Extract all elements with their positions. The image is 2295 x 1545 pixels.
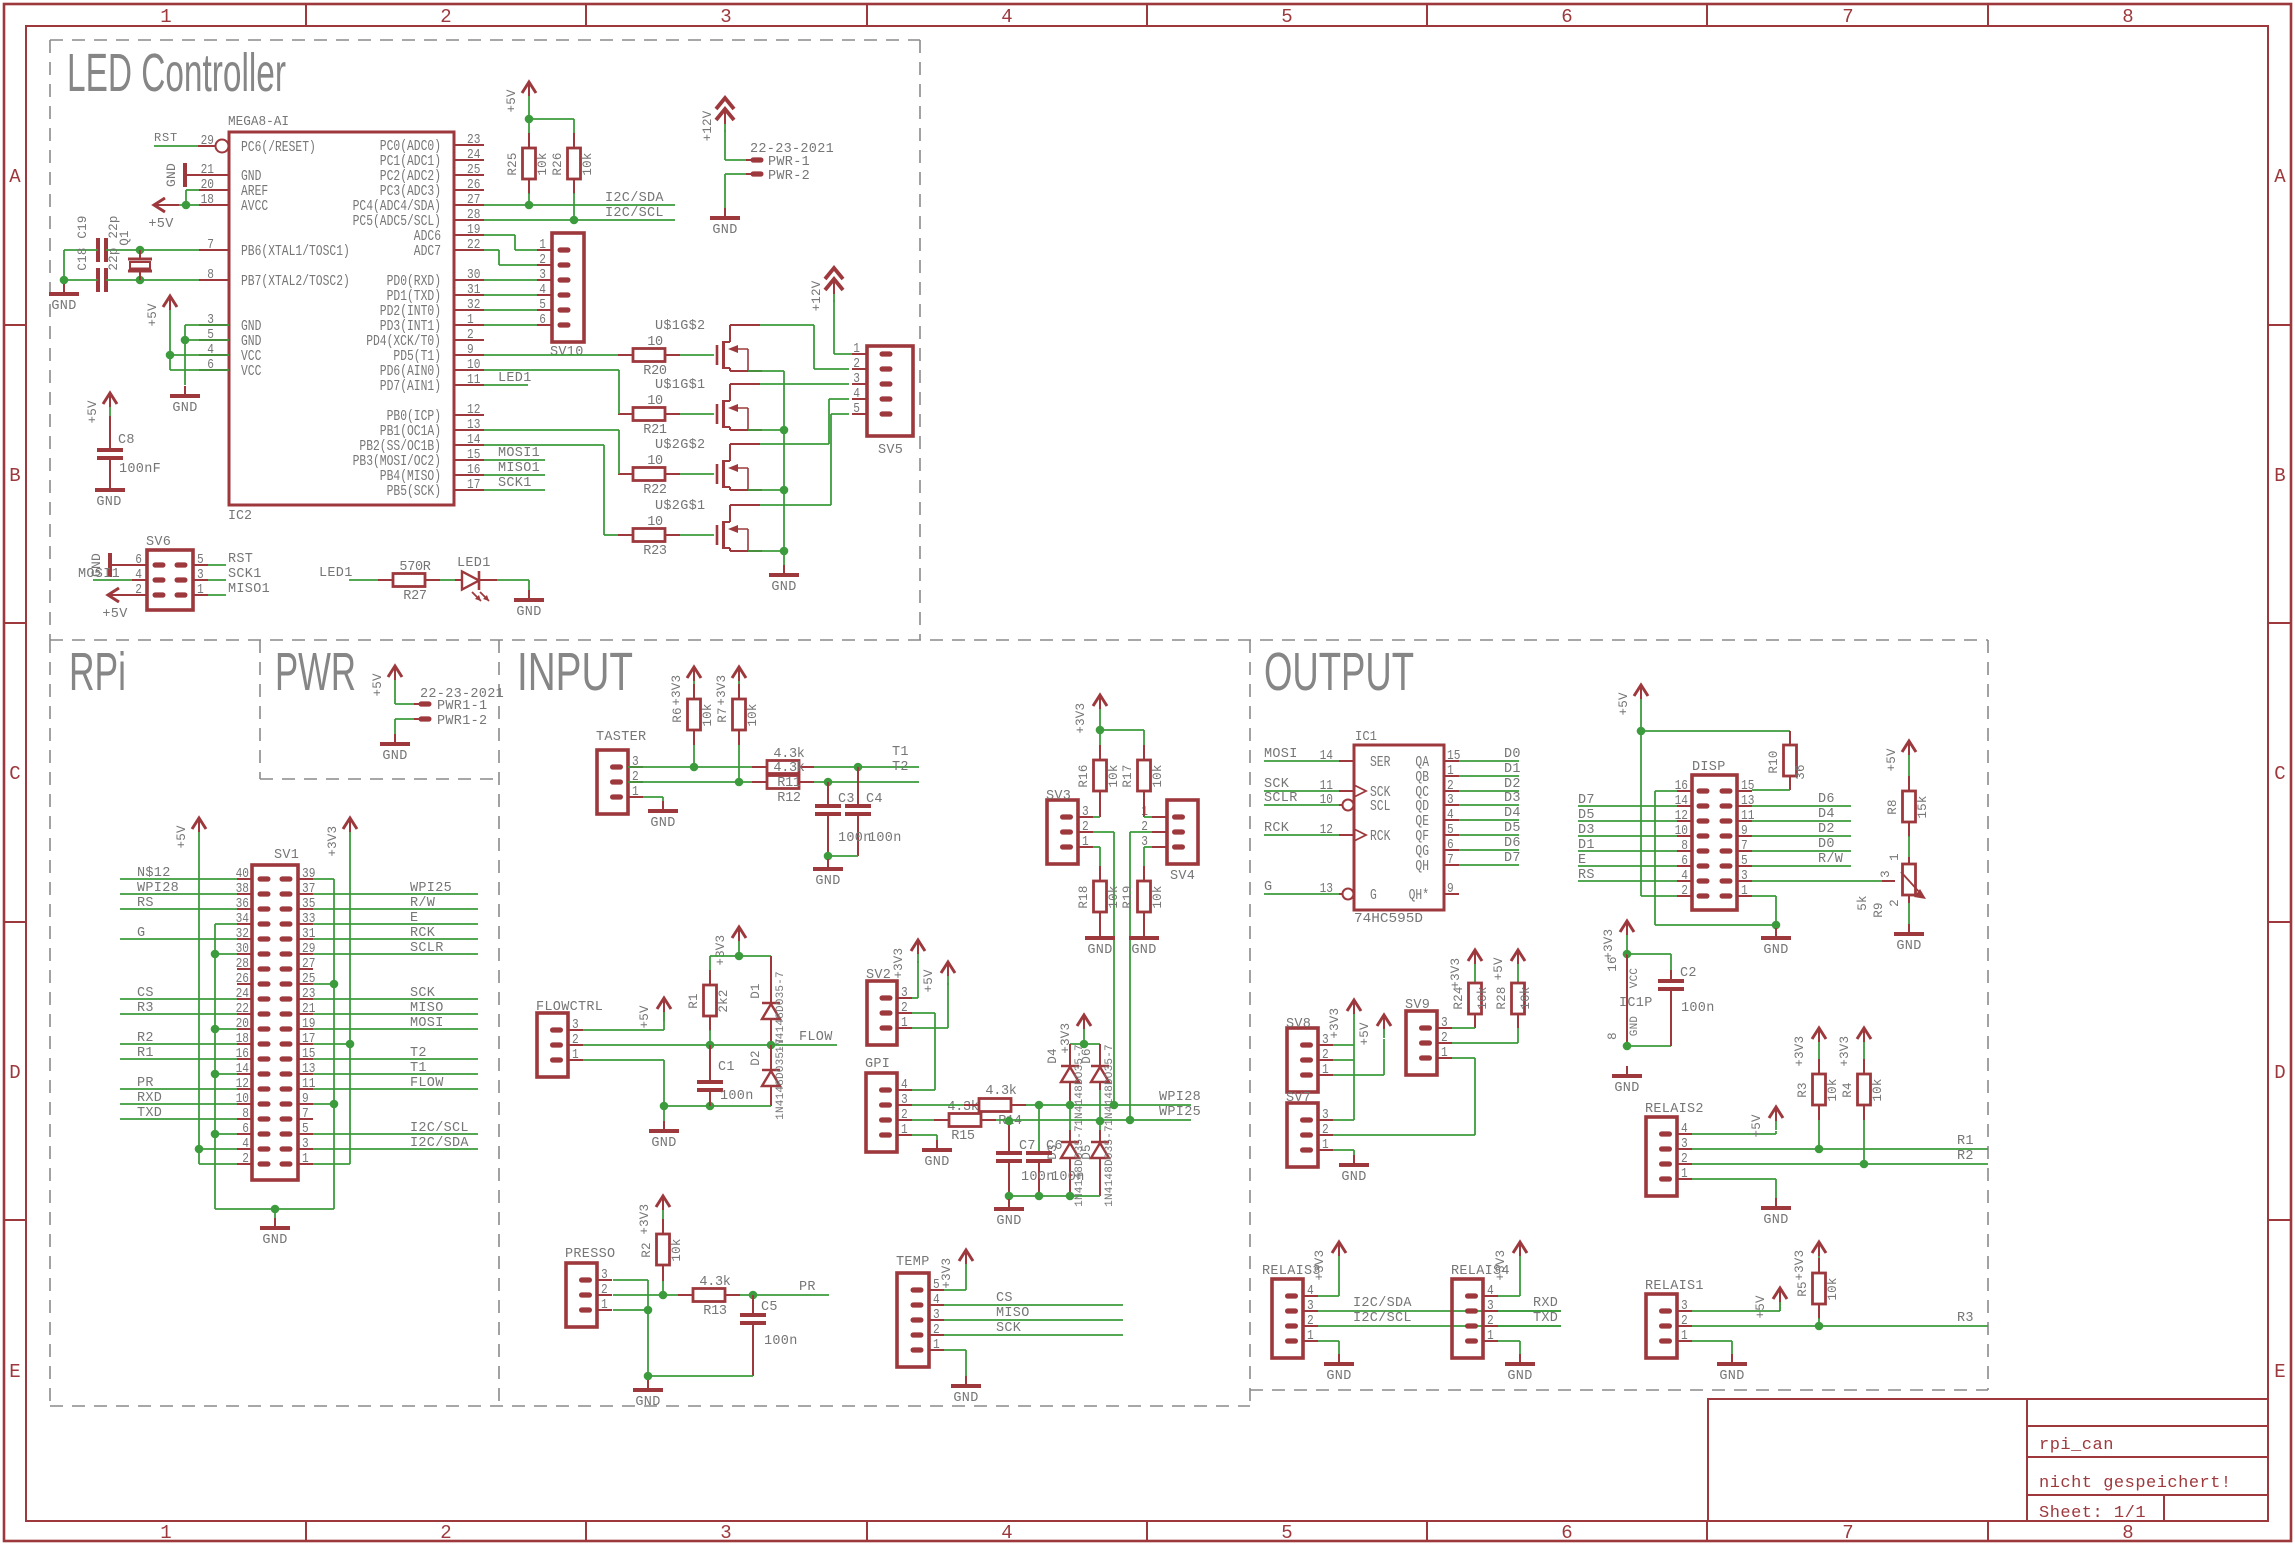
svg-text:SCLR: SCLR: [1264, 791, 1298, 806]
svg-text:11: 11: [467, 372, 480, 388]
svg-text:GND: GND: [516, 605, 541, 620]
svg-text:1: 1: [467, 312, 474, 328]
svg-text:32: 32: [467, 297, 480, 313]
svg-text:RELAIS1: RELAIS1: [1645, 1279, 1704, 1294]
svg-text:8: 8: [2122, 1522, 2133, 1544]
svg-text:1: 1: [572, 1047, 579, 1063]
svg-text:22: 22: [467, 237, 480, 253]
svg-text:MISO: MISO: [996, 1306, 1030, 1321]
svg-text:20: 20: [201, 177, 214, 193]
svg-text:2: 2: [1681, 883, 1688, 899]
svg-text:7: 7: [207, 237, 214, 253]
svg-text:2: 2: [467, 327, 474, 343]
svg-text:IC1: IC1: [1355, 729, 1377, 745]
svg-text:100nF: 100nF: [119, 462, 161, 477]
svg-text:GND: GND: [262, 1233, 287, 1248]
svg-text:GND: GND: [164, 163, 179, 187]
svg-text:27: 27: [467, 192, 480, 208]
svg-text:ADC7: ADC7: [414, 243, 441, 260]
svg-text:3: 3: [572, 1017, 579, 1033]
svg-text:4: 4: [1447, 807, 1454, 823]
svg-text:PB7(XTAL2/TOSC2): PB7(XTAL2/TOSC2): [241, 273, 350, 290]
svg-text:U$1G$1: U$1G$1: [655, 378, 705, 393]
svg-text:I2C/SDA: I2C/SDA: [605, 191, 664, 206]
svg-text:+5V: +5V: [505, 89, 519, 112]
svg-text:31: 31: [467, 282, 480, 298]
svg-text:D4: D4: [1818, 807, 1835, 822]
svg-text:1: 1: [901, 1015, 908, 1031]
svg-text:4: 4: [1307, 1283, 1314, 1299]
svg-text:10: 10: [647, 454, 663, 469]
svg-text:D5: D5: [1504, 821, 1521, 836]
svg-text:1: 1: [1447, 763, 1454, 779]
svg-text:8: 8: [1681, 838, 1688, 854]
svg-text:4: 4: [1681, 1121, 1688, 1137]
svg-text:D2: D2: [1818, 822, 1835, 837]
svg-text:D7: D7: [1504, 851, 1521, 866]
svg-text:3: 3: [302, 1136, 309, 1152]
svg-text:1N4148DO35-7: 1N4148DO35-7: [1104, 1125, 1116, 1207]
svg-text:7: 7: [1842, 6, 1853, 28]
svg-text:GND: GND: [1763, 943, 1788, 958]
svg-text:8: 8: [242, 1106, 249, 1122]
svg-text:GND: GND: [1629, 1016, 1641, 1037]
svg-text:R2: R2: [1957, 1149, 1974, 1164]
svg-text:R6: R6: [671, 707, 685, 722]
svg-text:4: 4: [135, 567, 142, 583]
svg-text:C8: C8: [118, 433, 135, 448]
svg-text:2: 2: [1487, 1313, 1494, 1329]
svg-text:GND: GND: [953, 1391, 978, 1406]
svg-text:10: 10: [467, 357, 480, 373]
svg-text:9: 9: [1447, 881, 1454, 897]
svg-text:1: 1: [1741, 883, 1748, 899]
svg-text:3: 3: [720, 1522, 731, 1544]
svg-text:TXD: TXD: [137, 1106, 162, 1121]
svg-text:36: 36: [236, 896, 249, 912]
svg-text:R16: R16: [1077, 764, 1091, 787]
svg-text:1: 1: [160, 1522, 171, 1544]
svg-text:D1: D1: [1578, 838, 1595, 853]
svg-text:1: 1: [632, 784, 639, 800]
svg-text:10k: 10k: [581, 152, 595, 175]
svg-text:GND: GND: [651, 1136, 676, 1151]
svg-text:1: 1: [933, 1337, 940, 1353]
svg-text:32: 32: [236, 926, 249, 942]
svg-text:RXD: RXD: [1533, 1296, 1558, 1311]
svg-text:PRESSO: PRESSO: [565, 1247, 615, 1262]
svg-text:22-23-2021: 22-23-2021: [750, 142, 834, 157]
svg-text:2: 2: [1322, 1122, 1329, 1138]
svg-text:GND: GND: [1131, 943, 1156, 958]
svg-text:+12V: +12V: [701, 110, 715, 141]
svg-text:PWR-1: PWR-1: [768, 155, 810, 170]
svg-text:+5V: +5V: [102, 607, 128, 622]
svg-text:CS: CS: [137, 986, 154, 1001]
svg-text:1: 1: [1322, 1137, 1329, 1153]
svg-text:30: 30: [467, 267, 480, 283]
svg-text:7: 7: [1741, 838, 1748, 854]
svg-text:C: C: [2274, 763, 2285, 785]
svg-text:3: 3: [1447, 792, 1454, 808]
svg-text:30: 30: [236, 941, 249, 957]
svg-text:2: 2: [572, 1032, 579, 1048]
svg-text:RCK: RCK: [1370, 828, 1390, 845]
svg-text:PB5(SCK): PB5(SCK): [387, 483, 441, 500]
svg-text:C4: C4: [866, 792, 883, 807]
svg-text:MOSI: MOSI: [1264, 747, 1298, 762]
svg-text:rpi_can: rpi_can: [2039, 1436, 2114, 1455]
svg-text:R19: R19: [1121, 885, 1135, 908]
svg-text:GND: GND: [712, 223, 737, 238]
svg-text:9: 9: [467, 342, 474, 358]
svg-text:WPI28: WPI28: [137, 881, 179, 896]
svg-text:SV3: SV3: [1046, 789, 1071, 804]
svg-text:1: 1: [601, 1297, 608, 1313]
svg-text:5: 5: [853, 401, 860, 417]
svg-text:5: 5: [1281, 6, 1292, 28]
svg-text:+5V: +5V: [371, 673, 385, 696]
svg-text:+3V3: +3V3: [326, 826, 340, 857]
svg-text:3: 3: [933, 1307, 940, 1323]
svg-text:SCK1: SCK1: [228, 567, 262, 582]
svg-text:I2C/SDA: I2C/SDA: [1353, 1296, 1412, 1311]
svg-text:FLOW: FLOW: [410, 1076, 444, 1091]
svg-text:3: 3: [601, 1267, 608, 1283]
svg-text:GND: GND: [635, 1395, 660, 1410]
svg-text:RXD: RXD: [137, 1091, 162, 1106]
svg-text:6: 6: [1447, 837, 1454, 853]
svg-text:+3V3: +3V3: [1313, 1250, 1327, 1281]
svg-text:5: 5: [1741, 853, 1748, 869]
svg-text:R15: R15: [951, 1129, 975, 1144]
svg-text:RST: RST: [228, 552, 253, 567]
svg-text:GND: GND: [1087, 943, 1112, 958]
svg-text:10k: 10k: [1871, 1078, 1885, 1101]
svg-text:SV10: SV10: [550, 345, 584, 360]
svg-text:INPUT: INPUT: [517, 642, 633, 702]
svg-text:R21: R21: [643, 423, 667, 438]
svg-text:R3: R3: [1957, 1311, 1974, 1326]
svg-text:40: 40: [236, 866, 249, 882]
svg-text:U$2G$2: U$2G$2: [655, 438, 705, 453]
svg-text:C7: C7: [1019, 1139, 1036, 1154]
svg-text:PWR: PWR: [275, 642, 356, 702]
svg-text:4.3k: 4.3k: [773, 747, 804, 762]
svg-text:7: 7: [1447, 852, 1454, 868]
svg-text:G: G: [1264, 880, 1272, 895]
svg-text:10k: 10k: [1826, 1078, 1840, 1101]
svg-text:C3: C3: [838, 792, 855, 807]
svg-text:C19: C19: [76, 215, 90, 238]
svg-text:SCK1: SCK1: [498, 476, 532, 491]
svg-text:5: 5: [197, 552, 204, 568]
svg-text:+3V3: +3V3: [892, 948, 906, 979]
svg-text:22-23-2021: 22-23-2021: [420, 687, 504, 702]
svg-text:G: G: [1370, 887, 1377, 904]
svg-text:WPI28: WPI28: [1159, 1090, 1201, 1105]
svg-text:5: 5: [539, 297, 546, 313]
svg-text:I2C/SDA: I2C/SDA: [410, 1136, 469, 1151]
svg-text:Q1: Q1: [118, 230, 132, 245]
svg-text:2: 2: [901, 1000, 908, 1016]
svg-text:18: 18: [236, 1031, 249, 1047]
svg-text:GND: GND: [771, 580, 796, 595]
svg-text:24: 24: [467, 147, 480, 163]
svg-text:RST: RST: [154, 131, 178, 145]
svg-text:+5V: +5V: [175, 825, 189, 848]
svg-text:D: D: [2274, 1062, 2285, 1084]
svg-text:+3V3: +3V3: [715, 675, 729, 706]
svg-text:C18: C18: [76, 247, 90, 270]
svg-text:+5V: +5V: [146, 303, 160, 326]
svg-text:B: B: [2274, 465, 2285, 487]
svg-text:18: 18: [201, 192, 214, 208]
svg-text:3: 3: [539, 267, 546, 283]
svg-text:MOSI1: MOSI1: [498, 446, 540, 461]
svg-text:PR: PR: [799, 1280, 816, 1295]
svg-text:R2: R2: [640, 1242, 654, 1257]
svg-text:SV9: SV9: [1405, 998, 1430, 1013]
svg-text:GND: GND: [1763, 1213, 1788, 1228]
svg-text:4.3k: 4.3k: [699, 1275, 730, 1290]
svg-text:3: 3: [1441, 1015, 1448, 1031]
svg-text:25: 25: [467, 162, 480, 178]
svg-text:16: 16: [236, 1046, 249, 1062]
svg-text:4: 4: [933, 1292, 940, 1308]
svg-text:+5V: +5V: [1492, 957, 1506, 980]
svg-text:1: 1: [302, 1151, 309, 1167]
svg-text:100n: 100n: [1051, 1170, 1085, 1185]
svg-text:1: 1: [197, 582, 204, 598]
svg-text:2: 2: [1681, 1313, 1688, 1329]
svg-text:GND: GND: [172, 401, 197, 416]
svg-text:100n: 100n: [868, 831, 902, 846]
svg-text:3: 3: [901, 985, 908, 1001]
svg-text:+3V3: +3V3: [1602, 929, 1616, 960]
svg-text:D0: D0: [1818, 837, 1835, 852]
svg-text:4: 4: [1681, 868, 1688, 884]
svg-text:14: 14: [236, 1061, 249, 1077]
svg-text:R3: R3: [1796, 1082, 1810, 1097]
svg-text:6: 6: [135, 552, 142, 568]
svg-text:100n: 100n: [838, 831, 872, 846]
svg-text:100n: 100n: [720, 1089, 754, 1104]
svg-text:100n: 100n: [1681, 1001, 1715, 1016]
svg-text:CS: CS: [996, 1291, 1013, 1306]
svg-text:VCC: VCC: [241, 363, 261, 380]
svg-text:2: 2: [853, 356, 860, 372]
svg-text:PWR-2: PWR-2: [768, 169, 810, 184]
svg-text:C6: C6: [1046, 1139, 1063, 1154]
svg-text:R2: R2: [137, 1031, 154, 1046]
svg-text:+5V: +5V: [922, 969, 936, 992]
svg-text:C1: C1: [718, 1060, 735, 1075]
svg-text:D4: D4: [1046, 1048, 1060, 1063]
svg-text:LED Controller: LED Controller: [67, 43, 286, 103]
svg-text:E: E: [1578, 853, 1586, 868]
svg-text:I2C/SCL: I2C/SCL: [1353, 1311, 1412, 1326]
svg-text:GND: GND: [815, 874, 840, 889]
svg-text:10k: 10k: [536, 152, 550, 175]
svg-text:RCK: RCK: [1264, 821, 1290, 836]
svg-text:GND: GND: [650, 816, 675, 831]
svg-text:C2: C2: [1680, 966, 1697, 981]
svg-text:+3V3: +3V3: [1838, 1036, 1852, 1067]
svg-text:R18: R18: [1077, 885, 1091, 908]
svg-text:GND: GND: [1507, 1369, 1532, 1384]
svg-text:3: 3: [1681, 1136, 1688, 1152]
svg-text:74HC595D: 74HC595D: [1354, 911, 1423, 927]
svg-text:OUTPUT: OUTPUT: [1264, 642, 1414, 702]
svg-text:SV4: SV4: [1170, 869, 1195, 884]
svg-text:2: 2: [1082, 819, 1089, 835]
svg-text:22: 22: [236, 1001, 249, 1017]
svg-text:E: E: [410, 911, 418, 926]
svg-text:15: 15: [1741, 778, 1754, 794]
svg-text:D1: D1: [1504, 762, 1521, 777]
svg-text:A: A: [2274, 166, 2286, 188]
svg-text:R/W: R/W: [1818, 852, 1844, 867]
svg-text:+3V3: +3V3: [1328, 1008, 1342, 1039]
svg-text:+5V: +5V: [1754, 1295, 1768, 1318]
svg-text:1: 1: [1082, 834, 1089, 850]
svg-text:D2: D2: [749, 1050, 763, 1065]
svg-text:1: 1: [1441, 1045, 1448, 1061]
svg-text:1N4148DO35-7: 1N4148DO35-7: [1074, 1125, 1086, 1207]
svg-text:MISO: MISO: [410, 1001, 444, 1016]
svg-text:3: 3: [1681, 1298, 1688, 1314]
svg-text:RELAIS3: RELAIS3: [1262, 1264, 1321, 1279]
svg-text:T2: T2: [892, 760, 909, 775]
svg-text:R20: R20: [643, 364, 667, 379]
svg-text:R12: R12: [777, 791, 801, 806]
svg-text:2k2: 2k2: [717, 989, 731, 1012]
svg-text:LED1: LED1: [498, 371, 532, 386]
svg-text:TXD: TXD: [1533, 1311, 1558, 1326]
svg-text:D6: D6: [1818, 792, 1835, 807]
svg-text:8: 8: [1606, 1032, 1620, 1040]
svg-text:DISP: DISP: [1692, 760, 1726, 775]
svg-text:RELAIS2: RELAIS2: [1645, 1102, 1704, 1117]
svg-text:SCK: SCK: [996, 1321, 1022, 1336]
svg-text:Sheet: 1/1: Sheet: 1/1: [2039, 1504, 2146, 1523]
svg-text:R9: R9: [1872, 902, 1886, 917]
svg-text:R1: R1: [687, 993, 701, 1008]
svg-text:RS: RS: [1578, 868, 1595, 883]
svg-text:R28: R28: [1495, 986, 1509, 1009]
svg-text:1: 1: [853, 341, 860, 357]
svg-text:TEMP: TEMP: [896, 1255, 930, 1270]
svg-text:1N4148DO35-7: 1N4148DO35-7: [775, 1038, 787, 1120]
svg-text:SV1: SV1: [274, 848, 299, 863]
svg-text:FLOW: FLOW: [799, 1030, 833, 1045]
svg-text:26: 26: [236, 971, 249, 987]
svg-text:+3V3: +3V3: [638, 1204, 652, 1235]
svg-text:MOSI: MOSI: [410, 1016, 444, 1031]
svg-text:IC1P: IC1P: [1619, 996, 1653, 1011]
svg-text:R26: R26: [551, 152, 565, 175]
svg-text:6: 6: [242, 1121, 249, 1137]
svg-text:LED1: LED1: [319, 566, 353, 581]
svg-text:1: 1: [539, 237, 546, 253]
svg-text:+3V3: +3V3: [940, 1258, 954, 1289]
svg-text:4.3k: 4.3k: [985, 1084, 1016, 1099]
svg-text:38: 38: [236, 881, 249, 897]
svg-text:GND: GND: [1614, 1081, 1639, 1096]
svg-text:I2C/SCL: I2C/SCL: [605, 206, 664, 221]
svg-text:3: 3: [1879, 870, 1893, 878]
svg-text:PC6(/RESET): PC6(/RESET): [241, 139, 316, 156]
svg-text:R25: R25: [506, 152, 520, 175]
svg-text:15: 15: [1447, 748, 1460, 764]
svg-text:SCK: SCK: [1264, 777, 1290, 792]
svg-text:D4: D4: [1504, 806, 1521, 821]
svg-text:4: 4: [901, 1077, 908, 1093]
svg-text:3: 3: [901, 1092, 908, 1108]
svg-text:GND: GND: [382, 749, 407, 764]
svg-text:2: 2: [1888, 899, 1902, 907]
svg-text:GND: GND: [1341, 1170, 1366, 1185]
svg-text:R24: R24: [1452, 986, 1466, 1009]
svg-text:R7: R7: [716, 707, 730, 722]
svg-text:15k: 15k: [1916, 795, 1930, 818]
svg-text:4: 4: [539, 282, 546, 298]
svg-text:D0: D0: [1504, 747, 1521, 762]
svg-text:D2: D2: [1504, 777, 1521, 792]
svg-text:FLOWCTRL: FLOWCTRL: [536, 1000, 603, 1015]
svg-text:SV8: SV8: [1286, 1017, 1311, 1032]
svg-text:16: 16: [467, 462, 480, 478]
svg-text:MEGA8-AI: MEGA8-AI: [228, 114, 289, 130]
svg-text:GND: GND: [924, 1155, 949, 1170]
svg-text:WPI25: WPI25: [1159, 1105, 1201, 1120]
svg-text:1: 1: [1307, 1328, 1314, 1344]
svg-text:7: 7: [1842, 1522, 1853, 1544]
svg-text:+5V: +5V: [1358, 1022, 1372, 1045]
svg-text:A: A: [9, 166, 21, 188]
svg-text:6: 6: [539, 312, 546, 328]
svg-text:23: 23: [467, 132, 480, 148]
svg-text:13: 13: [467, 417, 480, 433]
svg-text:+5V: +5V: [86, 400, 100, 423]
svg-text:1: 1: [1322, 1062, 1329, 1078]
svg-text:27: 27: [302, 956, 315, 972]
svg-text:12: 12: [236, 1076, 249, 1092]
svg-text:SCK: SCK: [410, 986, 436, 1001]
svg-text:QH*: QH*: [1409, 887, 1429, 904]
svg-text:SV2: SV2: [866, 968, 891, 983]
svg-text:1N4148DO35-7: 1N4148DO35-7: [1074, 1044, 1086, 1126]
svg-text:D: D: [9, 1062, 20, 1084]
svg-text:2: 2: [242, 1151, 249, 1167]
svg-text:6: 6: [1561, 6, 1572, 28]
svg-text:AVCC: AVCC: [241, 198, 268, 215]
svg-text:3: 3: [1307, 1298, 1314, 1314]
svg-text:GPI: GPI: [865, 1057, 890, 1072]
svg-text:IC2: IC2: [228, 508, 252, 524]
svg-text:4: 4: [853, 386, 860, 402]
svg-text:1: 1: [160, 6, 171, 28]
svg-text:3: 3: [1487, 1298, 1494, 1314]
svg-text:2: 2: [1441, 1030, 1448, 1046]
svg-text:1: 1: [901, 1122, 908, 1138]
svg-text:PB6(XTAL1/TOSC1): PB6(XTAL1/TOSC1): [241, 243, 350, 260]
svg-text:R4: R4: [1841, 1082, 1855, 1097]
svg-text:U$2G$1: U$2G$1: [655, 499, 705, 514]
svg-text:14: 14: [467, 432, 480, 448]
svg-text:PWR1-2: PWR1-2: [437, 714, 487, 729]
